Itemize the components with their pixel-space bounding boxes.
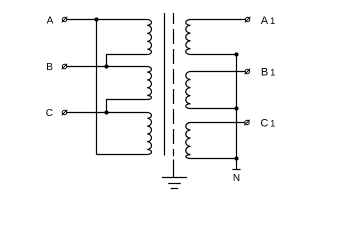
svg-text:1: 1 [270,16,275,26]
wire P2 bottom to C junction [107,100,148,113]
svg-text:B: B [261,67,268,79]
label C1 [260,118,275,130]
wire P3 bottom to left bus [97,154,148,156]
winding P3 (primary coil C) [147,113,151,155]
svg-text:1: 1 [270,68,275,78]
wire P1 bottom to B junction [107,55,148,67]
svg-text:A: A [47,16,54,27]
terminal A [62,17,68,23]
wire S1 bottom to N bus [191,54,237,56]
winding S1 (secondary coil A) [186,20,191,55]
svg-text:B: B [46,62,53,73]
node S1-N junction [234,52,238,56]
node S3-N junction [234,156,238,160]
wire N bus [236,55,238,170]
label A1 [261,15,275,27]
terminal C [62,110,68,116]
winding P2 (primary coil B) [147,67,151,100]
terminal B [62,64,68,70]
wire B1 to coil S2 top [191,71,246,73]
winding P1 (primary coil A) [147,20,151,55]
node S2-N junction [234,106,238,110]
wire core to ground [173,160,175,178]
node A junction [94,17,98,21]
label B1 [261,67,275,79]
node B junction [104,64,108,68]
core line solid [164,13,166,156]
wire C to coil P3 top [67,112,148,114]
svg-text:C: C [46,108,53,119]
wire left bus down from A junction [96,20,98,155]
wire B to coil P2 top [67,66,148,68]
terminal B1 [245,69,251,75]
winding S3 (secondary coil C) [186,123,191,159]
wire A1 to coil S1 top [191,19,246,21]
wire S3 bottom to N bus [191,158,237,160]
core line dashed [173,13,175,156]
wire S2 bottom to N bus [191,108,237,110]
winding S2 (secondary coil B) [186,72,191,109]
svg-text:N: N [233,173,240,184]
svg-text:1: 1 [270,119,275,129]
svg-text:A: A [261,15,269,27]
wire A to coil P1 top [67,19,148,21]
terminal N bar [232,169,240,171]
ground [162,178,187,189]
svg-text:C: C [260,118,268,130]
node C junction [104,110,108,114]
terminal A1 [245,17,251,23]
terminal C1 [244,120,250,126]
wire C1 to coil S3 top [191,122,246,124]
